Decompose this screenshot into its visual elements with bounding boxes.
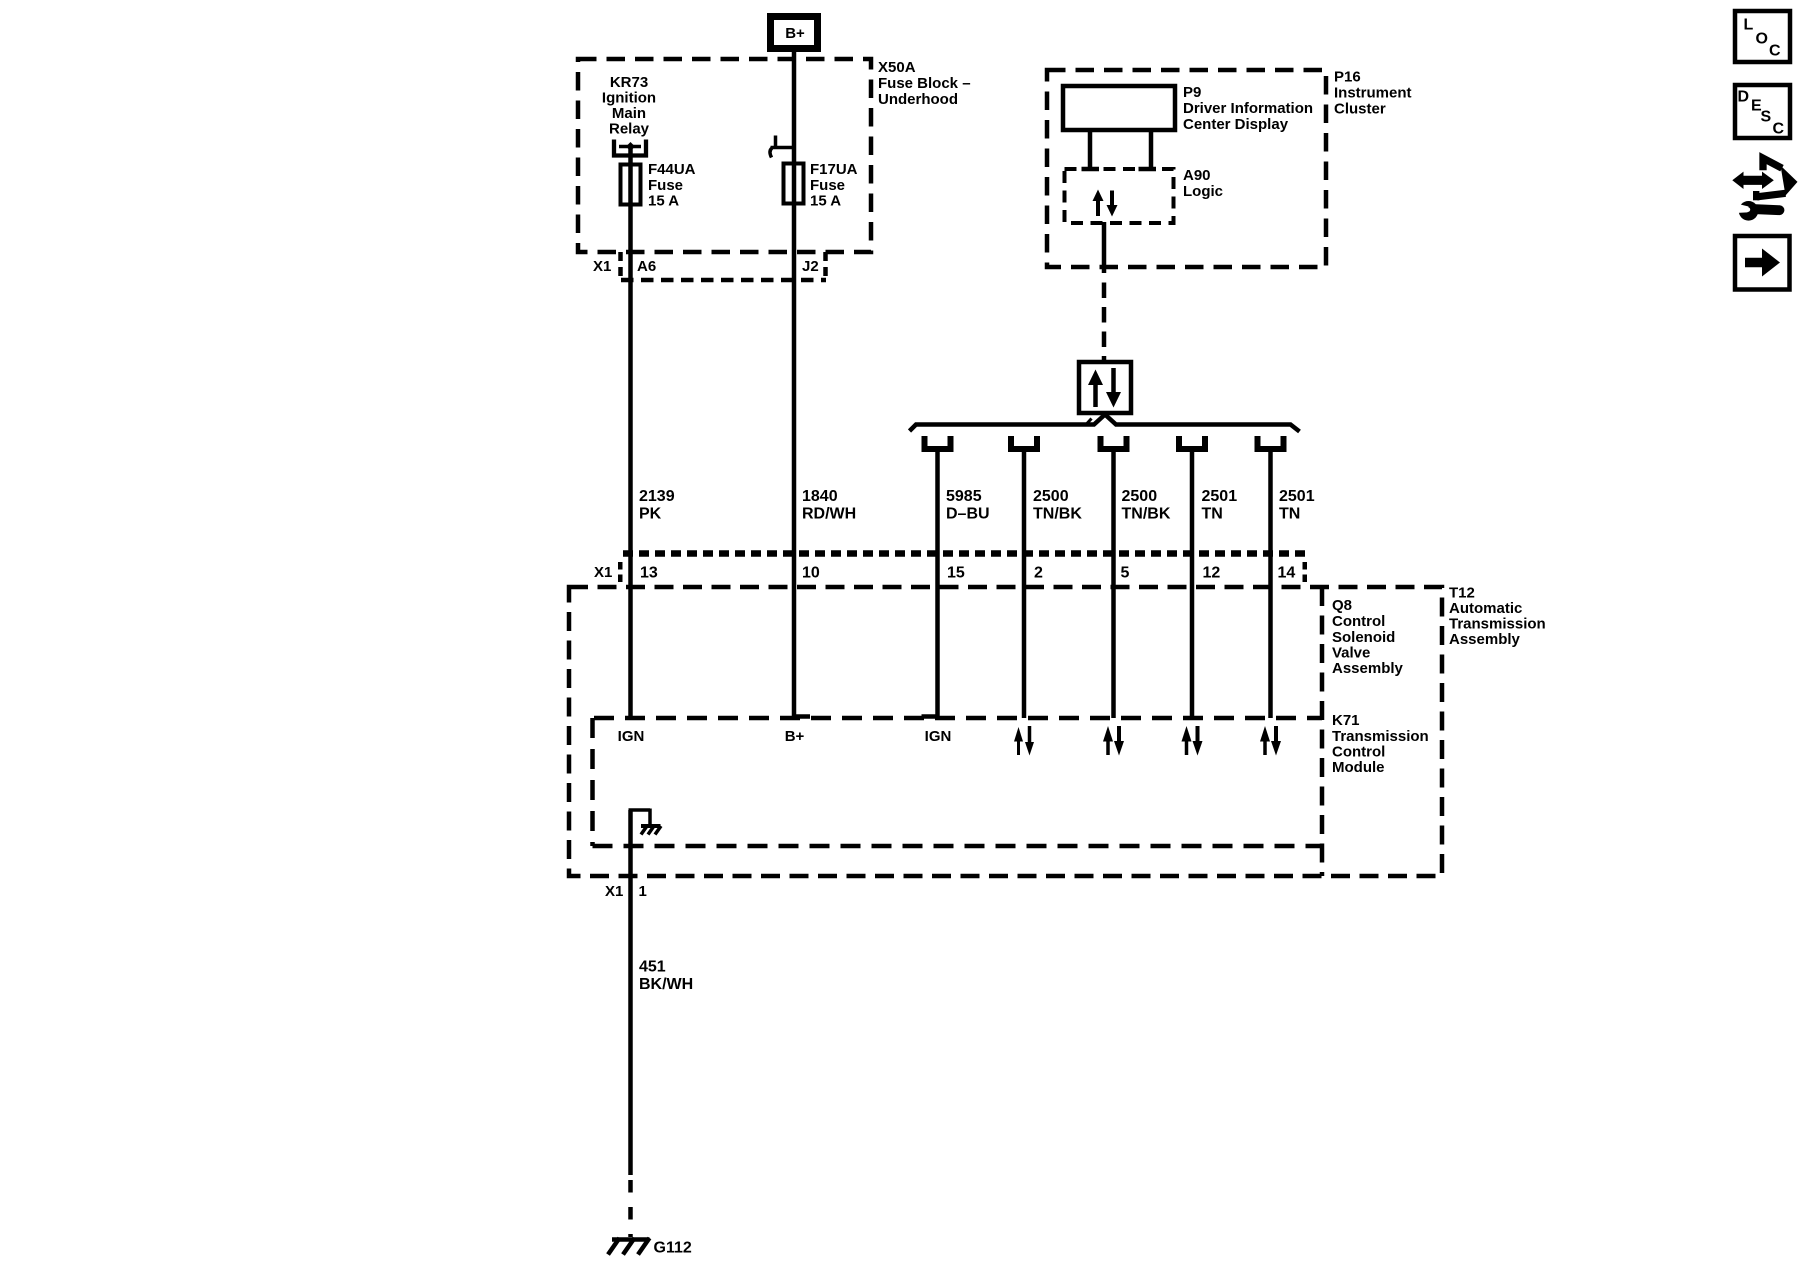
wire label 5985 D-BU [946, 488, 990, 523]
svg-text:Driver Information: Driver Information [1183, 100, 1313, 117]
svg-text:14: 14 [1278, 565, 1296, 582]
svg-text:2501: 2501 [1202, 488, 1238, 505]
svg-text:B+: B+ [785, 25, 805, 42]
wire label 2500 TN/BK [1033, 488, 1082, 523]
svg-text:X1: X1 [593, 258, 611, 275]
label T12 [1449, 585, 1546, 649]
T12 automatic transmission assembly dashed box [569, 587, 1442, 876]
connector X1 band of T12 [594, 554, 1309, 583]
svg-text:5985: 5985 [946, 488, 982, 505]
svg-text:Logic: Logic [1183, 183, 1223, 200]
svg-text:2501: 2501 [1279, 488, 1315, 505]
svg-text:G112: G112 [654, 1240, 692, 1257]
wire label 2500 TN/BK (2) [1122, 488, 1171, 523]
icon LOC box [1735, 11, 1790, 62]
svg-text:Transmission: Transmission [1332, 728, 1429, 745]
A90 data arrows [1093, 190, 1118, 217]
data arrows pin 14 [1260, 726, 1281, 756]
svg-text:X50A: X50A [878, 59, 916, 76]
svg-text:Transmission: Transmission [1449, 616, 1546, 633]
svg-text:15 A: 15 A [648, 193, 679, 210]
svg-text:L: L [1744, 17, 1754, 34]
svg-text:IGN: IGN [618, 728, 645, 745]
leg feet [1082, 167, 1100, 172]
svg-text:Center Display: Center Display [1183, 116, 1289, 133]
svg-text:5: 5 [1121, 565, 1130, 582]
svg-text:2500: 2500 [1033, 488, 1069, 505]
svg-text:Cluster: Cluster [1334, 101, 1386, 118]
svg-text:10: 10 [802, 565, 820, 582]
serial data wire from A90 [1102, 222, 1107, 273]
fuse F17UA [784, 164, 804, 204]
label P16 [1334, 69, 1412, 118]
K71 transmission control module dashed box [593, 718, 1323, 846]
wire label 451 BK/WH [639, 959, 693, 994]
svg-text:Relay: Relay [609, 121, 650, 138]
wire B+ feed (col2 x=794) [792, 52, 797, 718]
svg-text:P9: P9 [1183, 84, 1201, 101]
svg-text:15: 15 [947, 565, 965, 582]
svg-text:KR73: KR73 [610, 74, 648, 91]
label A90 [1183, 167, 1223, 200]
label F17UA [810, 161, 858, 210]
wire label 2501 TN [1202, 488, 1238, 523]
svg-text:C: C [1769, 43, 1781, 60]
display P9 box [1063, 86, 1175, 130]
serial data symbol box [1079, 362, 1131, 413]
svg-text:D–BU: D–BU [946, 506, 990, 523]
svg-text:RD/WH: RD/WH [802, 506, 856, 523]
svg-text:IGN: IGN [925, 728, 952, 745]
svg-text:BK/WH: BK/WH [639, 976, 693, 993]
svg-text:Control: Control [1332, 613, 1385, 630]
svg-text:15 A: 15 A [810, 193, 841, 210]
wire label 1840 RD/WH [802, 488, 856, 523]
instrument cluster P16 dashed box [1047, 70, 1326, 267]
svg-text:T12: T12 [1449, 585, 1475, 602]
bus brace [910, 415, 1300, 432]
icon forward arrow box [1735, 236, 1790, 290]
fuse F44UA [621, 165, 641, 205]
svg-text:TN: TN [1279, 506, 1300, 523]
svg-text:Fuse: Fuse [648, 177, 683, 194]
svg-text:P16: P16 [1334, 69, 1361, 86]
ground wire 451 [628, 810, 633, 1175]
label KR73 Ignition Main Relay [602, 74, 656, 138]
svg-text:Valve: Valve [1332, 645, 1370, 662]
svg-text:12: 12 [1203, 565, 1221, 582]
relay KR73 contact [614, 140, 646, 156]
svg-text:2: 2 [1034, 565, 1043, 582]
svg-text:S: S [1761, 109, 1772, 126]
bus wires [935, 452, 940, 718]
label X50A [878, 59, 971, 108]
wire label 2139 PK [639, 488, 675, 523]
svg-text:F17UA: F17UA [810, 161, 858, 178]
ground G112 [608, 1238, 692, 1257]
Q8 / K71 separator [1320, 587, 1325, 876]
svg-text:F44UA: F44UA [648, 161, 696, 178]
svg-text:O: O [1756, 31, 1768, 48]
svg-text:K71: K71 [1332, 712, 1360, 729]
label P9 [1183, 84, 1313, 133]
connector X1 row of X50A (pins A6, J2) [593, 252, 826, 281]
connector X1 pin 1 [605, 883, 647, 900]
svg-text:X1: X1 [594, 564, 612, 581]
data arrows pin 12 [1182, 726, 1203, 756]
svg-text:2500: 2500 [1122, 488, 1158, 505]
label K71 [1332, 712, 1429, 776]
logic A90 dashed box [1065, 169, 1174, 223]
svg-text:Fuse Block –: Fuse Block – [878, 75, 971, 92]
data arrows pin 2 [1014, 726, 1034, 756]
svg-text:A90: A90 [1183, 167, 1211, 184]
svg-text:Solenoid: Solenoid [1332, 629, 1395, 646]
svg-text:C: C [1773, 121, 1785, 138]
svg-text:Module: Module [1332, 759, 1385, 776]
svg-text:Assembly: Assembly [1332, 660, 1404, 677]
svg-text:1: 1 [639, 883, 647, 900]
svg-text:451: 451 [639, 959, 666, 976]
svg-text:Assembly: Assembly [1449, 631, 1521, 648]
data arrows pin 5 [1103, 726, 1124, 756]
svg-text:A6: A6 [637, 258, 656, 275]
svg-text:Control: Control [1332, 744, 1385, 761]
fusible hook at F17UA [770, 136, 794, 158]
svg-text:Q8: Q8 [1332, 597, 1352, 614]
wire ignition feed (col1 x=630.5) [628, 147, 633, 719]
svg-text:Ignition: Ignition [602, 90, 656, 107]
svg-text:1840: 1840 [802, 488, 838, 505]
wire feet at K71 pins [794, 714, 810, 719]
label F44UA [648, 161, 696, 210]
svg-text:13: 13 [640, 565, 658, 582]
fuse block X50A dashed box [578, 59, 871, 252]
svg-text:Automatic: Automatic [1449, 600, 1522, 617]
svg-text:D: D [1738, 89, 1750, 106]
svg-text:TN/BK: TN/BK [1033, 506, 1082, 523]
svg-text:J2: J2 [802, 258, 819, 275]
svg-text:PK: PK [639, 506, 662, 523]
svg-text:Fuse: Fuse [810, 177, 845, 194]
icon data link connector (arrows / vehicle / wrench) [1732, 158, 1797, 220]
svg-text:TN/BK: TN/BK [1122, 506, 1171, 523]
svg-text:B+: B+ [785, 728, 805, 745]
svg-text:2139: 2139 [639, 488, 675, 505]
wire label 2501 TN (2) [1279, 488, 1315, 523]
svg-text:X1: X1 [605, 883, 623, 900]
B+ power symbol [771, 17, 818, 49]
wire P9 leg left [1088, 130, 1093, 168]
label Q8 [1332, 597, 1404, 677]
svg-text:TN: TN [1202, 506, 1223, 523]
icon DESC box [1735, 85, 1790, 138]
internal ground symbol K71 [629, 809, 662, 835]
svg-text:Main: Main [612, 105, 646, 122]
wire P9 leg right [1149, 130, 1154, 168]
bus terminal cups [925, 436, 951, 449]
svg-text:Instrument: Instrument [1334, 85, 1412, 102]
svg-text:Underhood: Underhood [878, 91, 958, 108]
